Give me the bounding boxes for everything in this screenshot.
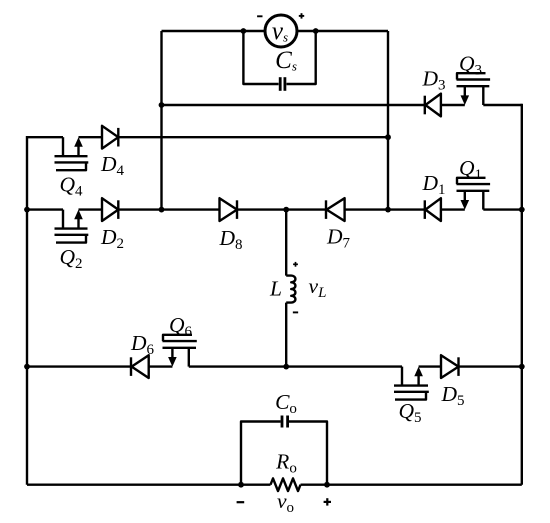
label D4	[100, 152, 125, 179]
label Q6	[169, 313, 193, 340]
wire vertical right drop x=388	[387, 31, 389, 210]
wire inductor node to Q5	[286, 365, 402, 367]
wire D7 to junction x=388	[345, 208, 388, 210]
label Q3	[459, 52, 482, 79]
wire rail to D6	[27, 365, 131, 367]
wire node B to D8	[162, 208, 220, 210]
label D2	[100, 225, 124, 252]
wire Q1 to right rail	[483, 208, 522, 210]
diode D5	[441, 355, 459, 378]
label L	[269, 277, 282, 301]
wire D3 to Q3	[441, 104, 465, 106]
label Q1	[459, 156, 482, 183]
minus sign of vL	[293, 311, 298, 313]
label Ro	[275, 450, 297, 477]
junction dot (388,136)	[385, 134, 391, 140]
transistor Q5	[394, 367, 429, 400]
wire top-right from source to corner	[296, 30, 388, 32]
voltage source vs	[265, 15, 297, 47]
junction dot left rail row B	[24, 207, 30, 213]
junction dot right rail row C	[519, 364, 525, 370]
diode D4	[102, 126, 118, 149]
label Q5	[398, 399, 421, 426]
capacitor Cs plates	[280, 77, 285, 91]
junction dot (388,209)	[385, 207, 391, 213]
label D3	[421, 67, 445, 94]
wire inductor bottom segment	[285, 303, 287, 367]
left rail	[26, 136, 28, 485]
capacitor Cs right wire	[287, 31, 316, 84]
diode D2	[102, 198, 118, 221]
label D8	[218, 226, 242, 253]
wire D2 to node B	[118, 208, 161, 210]
wire D1 to Q1	[441, 208, 465, 210]
label D1	[421, 171, 445, 198]
label Q4	[59, 173, 83, 200]
diode D8	[220, 198, 238, 221]
diode D3	[425, 94, 441, 117]
wire Q5 to D5	[419, 365, 441, 367]
junction dot output right	[324, 482, 330, 488]
junction dot node A (161,105)	[159, 102, 165, 108]
wire D6 to Q6	[149, 365, 173, 367]
label vo	[277, 489, 294, 516]
plus sign of vs	[299, 13, 304, 18]
plus sign of vo	[324, 498, 331, 505]
wire Q4 to D4	[79, 136, 103, 138]
junction dot inductor top node	[283, 207, 289, 213]
diode D1	[425, 198, 441, 221]
wire inductor top segment	[285, 210, 287, 276]
wire rail corner to Q4	[27, 136, 63, 138]
label D7	[326, 225, 351, 252]
label vs	[272, 18, 288, 45]
label Q2	[59, 245, 82, 272]
capacitor Co right wire	[289, 422, 327, 485]
wire inductor node to D7	[286, 208, 326, 210]
wire top-left from corner to source	[162, 30, 267, 32]
wire rail to Q2	[27, 208, 63, 210]
resistor Ro	[271, 478, 301, 491]
wire row from node A to D3	[162, 104, 425, 106]
wire vertical left drop x=161	[160, 31, 162, 210]
junction dot Cs left	[241, 28, 247, 34]
transistor Q1	[457, 178, 491, 210]
svg-text:L: L	[269, 277, 282, 301]
wire D5 to right rail	[459, 365, 522, 367]
transistor Q3	[457, 73, 491, 105]
junction dot inductor bottom node	[283, 364, 289, 370]
capacitor Cs left wire	[243, 31, 278, 84]
junction dot output left	[238, 482, 244, 488]
junction dot left rail row C	[24, 364, 30, 370]
junction dot Cs right	[313, 28, 319, 34]
transistor Q4	[55, 137, 89, 170]
label D5	[440, 382, 464, 409]
label vL	[309, 274, 327, 301]
junction dot right rail row B	[519, 207, 525, 213]
label D6	[130, 331, 155, 358]
transistor Q6	[163, 335, 197, 367]
wire Q6 to inductor bottom node	[189, 365, 286, 367]
minus sign of vs	[257, 15, 262, 17]
label Co	[275, 390, 297, 417]
wire Q3 to right rail	[483, 104, 522, 106]
right rail	[521, 104, 523, 485]
plus sign of vL	[293, 262, 298, 267]
capacitor Co left wire	[241, 422, 281, 485]
wire Q2 to D2	[79, 208, 103, 210]
label Cs	[275, 47, 297, 74]
wire D8 to inductor node	[237, 208, 286, 210]
wire D4 to junction at x=388	[118, 136, 388, 138]
junction dot node B (161,209)	[159, 207, 165, 213]
bottom rail right segment	[301, 484, 522, 486]
inductor L coil	[286, 276, 295, 303]
minus sign of vo	[237, 501, 245, 503]
diode D7	[326, 198, 345, 221]
bottom rail left segment	[27, 484, 271, 486]
diode D6	[131, 355, 149, 378]
transistor Q2	[55, 210, 89, 243]
capacitor Co plates	[282, 416, 288, 428]
wire junction to D1	[388, 208, 425, 210]
